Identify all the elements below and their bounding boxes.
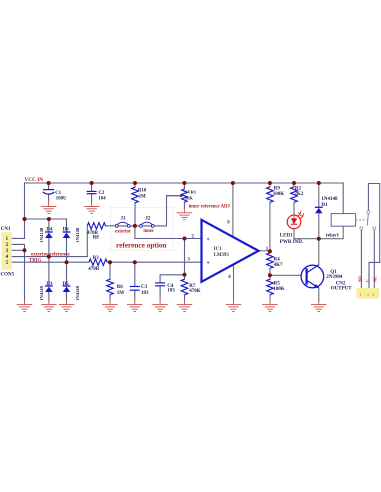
ground below R5 <box>262 299 278 311</box>
wire R7 leads <box>184 275 186 301</box>
wire pin4 exterior reference line <box>12 226 88 257</box>
ground below SVR1 <box>177 207 193 219</box>
wire pin1 stub <box>12 237 25 239</box>
wire NC contact down <box>360 230 362 288</box>
junction IC1 output / R9 / R4 node <box>268 249 272 253</box>
junction VCC rail / C1 <box>47 181 51 185</box>
svg-text:1N4148: 1N4148 <box>39 285 44 301</box>
svg-text:1M: 1M <box>139 194 146 199</box>
svg-text:4K7: 4K7 <box>274 263 283 268</box>
junction pin2 line / divider branch <box>183 237 187 241</box>
svg-text:30K: 30K <box>185 196 194 201</box>
resistor R10 <box>132 187 139 203</box>
diode D4 <box>45 232 53 238</box>
junction exterior reference line / D4-D3 <box>47 255 51 259</box>
ground below op-amp pin4 <box>226 299 242 311</box>
svg-text:1N4148: 1N4148 <box>75 227 80 243</box>
svg-text:VCC IN: VCC IN <box>24 177 43 183</box>
wire C2 stub <box>91 183 93 200</box>
ground below R7 <box>177 299 193 311</box>
svg-text:LED1: LED1 <box>280 234 293 239</box>
junction R4 / R5 / Q1 base node <box>268 273 272 277</box>
svg-text:C1: C1 <box>55 191 61 196</box>
connector CN1 <box>1 227 15 277</box>
diode D3 <box>45 286 53 292</box>
svg-text:LM393: LM393 <box>214 253 230 258</box>
ground below C3 <box>127 299 143 311</box>
svg-text:100K: 100K <box>273 192 285 197</box>
svg-text:R9: R9 <box>274 187 281 192</box>
svg-text:1M: 1M <box>117 291 125 296</box>
transistor Q1 <box>301 265 324 289</box>
wire relay contact common n-link <box>368 184 379 289</box>
svg-text:104: 104 <box>98 197 106 202</box>
diode D1 <box>315 207 323 213</box>
junction CN1 pin 3 / ground column <box>23 248 27 252</box>
wire Jjunction down to pin2 line <box>135 226 202 239</box>
jumper J2 <box>139 222 154 227</box>
wire R6 leads <box>109 262 111 301</box>
svg-text:1N4148: 1N4148 <box>39 227 44 243</box>
wire ref divider vertical <box>184 239 186 275</box>
resistor R4 <box>267 253 274 269</box>
jumper J1 <box>115 222 130 227</box>
svg-text:R3: R3 <box>93 256 100 261</box>
relay coil relay1 <box>331 214 355 227</box>
svg-text:100K: 100K <box>273 287 285 292</box>
svg-text:SVR1: SVR1 <box>185 190 197 195</box>
trimmer SVR1 <box>182 189 187 202</box>
wire R4 leads <box>269 251 271 275</box>
ground below Q1 <box>311 299 327 311</box>
svg-text:C: C <box>365 279 370 282</box>
svg-text:C3: C3 <box>141 285 148 290</box>
wire sub rail <box>25 218 67 220</box>
wire Q1 emitter to ground <box>318 288 320 301</box>
diode D5 <box>63 286 71 292</box>
wire relay coil bottom <box>319 226 343 239</box>
wire D4 column <box>48 219 50 301</box>
svg-text:relay1: relay1 <box>326 234 340 239</box>
svg-text:J1: J1 <box>121 216 127 221</box>
svg-text:reference option: reference option <box>116 241 167 250</box>
junction VCC rail / R10 <box>133 181 137 185</box>
junction pin3 filter / R6 <box>108 260 112 264</box>
connector CN2 <box>357 288 380 299</box>
wire R8 to J1 <box>106 225 116 227</box>
junction VCC rail / C2 <box>90 181 94 185</box>
resistor R8 <box>87 223 105 229</box>
wire opamp output <box>258 250 270 252</box>
wire NO contact down <box>373 230 375 288</box>
resistor R2 <box>291 187 298 203</box>
wire pin5 TRIG line <box>12 261 89 263</box>
svg-text:D5: D5 <box>63 282 70 287</box>
resistor R9 <box>267 187 274 203</box>
LED1 <box>287 211 303 229</box>
wire R3 right to pin3 <box>107 261 201 263</box>
ground left column <box>17 299 33 311</box>
svg-text:inner: inner <box>143 229 154 234</box>
junction LED1 / D1 / relay coil / Q1 collector node <box>317 237 321 241</box>
capacitor C3 <box>130 285 149 301</box>
junction J1-J2 / R10 node <box>133 224 137 228</box>
svg-text:TRIG: TRIG <box>29 259 42 264</box>
capacitor C1 <box>43 190 67 203</box>
capacitor C4 <box>155 283 175 301</box>
junction VCC rail / R2 <box>292 181 296 185</box>
junction VCC rail / IC1 pin 8 <box>231 181 235 185</box>
ground below D3 <box>41 299 57 311</box>
ground below R6 <box>102 299 118 311</box>
svg-text:R2: R2 <box>295 187 302 192</box>
wire opamp pin8 <box>232 183 234 237</box>
wire J2 right to SVR wiper <box>154 196 180 226</box>
svg-text:exterior: exterior <box>115 230 131 235</box>
wire relay coil top <box>342 183 344 214</box>
wire pin2 stub <box>12 244 25 300</box>
svg-text:R6: R6 <box>117 285 124 290</box>
svg-text:1N4148: 1N4148 <box>75 285 80 301</box>
capacitor C2 <box>87 191 107 203</box>
wire R2 lead to LED <box>293 183 295 218</box>
svg-text:R10: R10 <box>138 189 147 194</box>
svg-text:2K2: 2K2 <box>294 192 303 197</box>
svg-text:2N3904: 2N3904 <box>326 275 343 280</box>
svg-text:103: 103 <box>141 291 149 296</box>
svg-text:470R: 470R <box>88 267 100 272</box>
svg-text:NO: NO <box>358 276 363 282</box>
wire Q1 base <box>270 274 307 276</box>
svg-text:J2: J2 <box>145 216 151 221</box>
svg-text:R4: R4 <box>274 257 281 262</box>
diode D6 <box>63 232 71 238</box>
svg-text:C2: C2 <box>98 191 104 196</box>
svg-text:CON5: CON5 <box>1 272 15 277</box>
wire Q1 collector <box>318 239 320 265</box>
op-amp IC1 <box>202 220 259 282</box>
junction pin3 filter / C3 <box>133 260 137 264</box>
wire R9 leads <box>269 183 271 251</box>
wire opamp pin4 <box>233 265 235 301</box>
wire R10 leads <box>134 183 136 225</box>
ground below D5 <box>59 299 75 311</box>
svg-text:470K: 470K <box>189 289 201 294</box>
resistor R3 <box>89 259 107 265</box>
svg-text:inner reference ADJ: inner reference ADJ <box>189 204 231 209</box>
svg-text:D6: D6 <box>63 228 70 233</box>
relay link dashes <box>356 219 367 221</box>
wire C1 stub <box>48 183 50 200</box>
wire pin3 stub <box>12 249 25 251</box>
svg-text:CN1: CN1 <box>1 227 11 232</box>
svg-text:D3: D3 <box>46 282 53 287</box>
junction C4 / R7 node <box>183 273 187 277</box>
resistor R7 <box>181 279 188 295</box>
ground below C1 <box>41 201 57 213</box>
relay contact NC <box>360 227 363 230</box>
junction TRIG line / D6-D5 <box>65 260 69 264</box>
relay contact NO <box>373 227 376 230</box>
svg-text:103: 103 <box>167 289 175 294</box>
svg-text:OUTPUT: OUTPUT <box>331 287 353 292</box>
wire C3 leads <box>134 262 136 297</box>
wire J1-J2 junction links <box>118 225 151 227</box>
wire C4 branch <box>160 275 184 297</box>
junction VCC rail / D1 <box>317 181 321 185</box>
wire left vertical <box>24 183 26 238</box>
svg-text:100U: 100U <box>56 197 67 202</box>
svg-text:IC1: IC1 <box>214 247 222 252</box>
svg-text:R7: R7 <box>189 284 196 289</box>
svg-text:R5: R5 <box>274 282 281 287</box>
wire SVR1 leads <box>183 183 185 208</box>
wire LED bottom <box>294 224 319 238</box>
resistor R5 <box>267 279 274 295</box>
resistor R6 <box>107 279 114 295</box>
svg-text:1N4148: 1N4148 <box>321 197 338 202</box>
svg-text:PWR IND.: PWR IND. <box>280 240 304 245</box>
svg-text:R8: R8 <box>93 235 100 240</box>
ground below C4 <box>152 299 168 311</box>
wire R5 leads <box>269 275 271 301</box>
junction VCC rail / R9 <box>268 181 272 185</box>
junction sub rail / D4 column <box>47 217 51 221</box>
svg-text:Q1: Q1 <box>330 270 337 275</box>
reference option dashed group box <box>111 208 173 251</box>
junction VCC rail / SVR1 <box>182 181 186 185</box>
relay armature <box>367 211 370 214</box>
junction sub rail / left vertical <box>23 217 27 221</box>
wire D6 column <box>66 219 68 301</box>
ground below C2 <box>84 201 100 213</box>
wire D1 column <box>318 183 320 239</box>
svg-text:D4: D4 <box>46 228 53 233</box>
svg-text:D1: D1 <box>321 203 328 208</box>
wire VCC top rail <box>25 182 344 184</box>
svg-text:NC: NC <box>372 276 377 282</box>
